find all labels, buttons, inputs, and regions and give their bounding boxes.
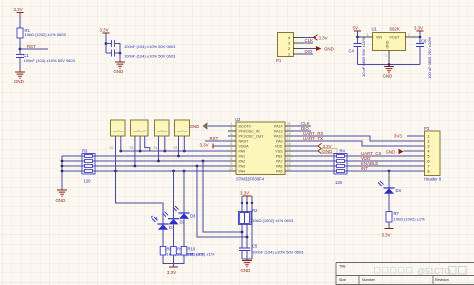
svg-text:S2: S2	[110, 146, 114, 150]
bottom join wire	[242, 259, 252, 260]
mcu right pin stubs	[285, 122, 293, 171]
SECTION: title block and watermark	[336, 263, 474, 285]
svg-text:PA0: PA0	[239, 150, 246, 154]
svg-text:D2: D2	[180, 220, 186, 225]
pin 4 wire	[293, 37, 316, 39]
key S5	[174, 120, 190, 150]
led D1	[151, 216, 175, 247]
resnet R3	[82, 149, 95, 184]
svg-text:17: 17	[287, 137, 291, 141]
SECTION: right resnet R4, header, D4	[293, 121, 442, 238]
svg-text:1: 1	[288, 53, 290, 57]
svg-text:—○—○: —○—○	[133, 128, 146, 133]
svg-text:PA2: PA2	[239, 160, 246, 164]
power 5V	[353, 26, 362, 38]
svg-text:STM32F030F4: STM32F030F4	[236, 177, 265, 182]
svg-text:CLK: CLK	[305, 38, 314, 43]
svg-text:9: 9	[231, 162, 233, 166]
svg-text:GND: GND	[386, 40, 390, 48]
net label UART_TX wire to header pin3	[293, 136, 425, 146]
led D2	[163, 212, 186, 247]
svg-text:7: 7	[428, 164, 430, 168]
svg-text:PA7: PA7	[276, 160, 283, 164]
wire	[19, 38, 21, 49]
svg-text:10kΩ (1002) ±1% 0603: 10kΩ (1002) ±1% 0603	[252, 218, 294, 223]
bottom wire	[358, 63, 421, 66]
resistor R10	[181, 247, 214, 257]
wire row PA2	[93, 160, 229, 162]
ground	[56, 190, 68, 203]
svg-text:D3: D3	[190, 214, 196, 219]
capacitor C2	[106, 40, 176, 49]
svg-text:PA14: PA14	[274, 125, 283, 129]
wire row INT	[345, 166, 426, 172]
svg-text:2: 2	[288, 47, 290, 51]
svg-text:4: 4	[231, 137, 233, 141]
svg-text:2: 2	[408, 33, 410, 37]
svg-text:1: 1	[385, 54, 387, 58]
mcu right pin names	[274, 125, 283, 174]
svg-text:20: 20	[287, 122, 291, 126]
svg-text:PA10: PA10	[274, 135, 283, 139]
svg-text:VDDA: VDDA	[239, 145, 250, 149]
svg-text:Number: Number	[362, 278, 376, 282]
svg-text:3.3V: 3.3V	[14, 7, 23, 12]
svg-text:1kΩ (102) ±1%: 1kΩ (102) ±1%	[188, 252, 215, 257]
ground	[114, 62, 126, 74]
svg-text:INT: INT	[361, 166, 368, 171]
wire to led D2	[172, 170, 175, 219]
svg-text:8: 8	[428, 169, 430, 173]
svg-text:C5: C5	[252, 244, 258, 249]
svg-text:Title: Title	[339, 265, 346, 269]
key S4 pin drops	[157, 136, 165, 162]
svg-text:6: 6	[231, 147, 233, 151]
header P3	[424, 126, 442, 182]
svg-text:GND: GND	[386, 149, 396, 154]
svg-text:S3: S3	[130, 146, 134, 150]
net label DIO	[293, 126, 311, 131]
pin 3 wire	[293, 42, 313, 44]
wire from PA2	[202, 160, 244, 234]
led D3	[173, 206, 196, 247]
svg-text:GND: GND	[190, 124, 200, 129]
svg-text:P3: P3	[424, 126, 430, 131]
node	[105, 42, 108, 45]
port GND on VSS	[293, 148, 337, 154]
capacitor pack C5	[239, 244, 304, 255]
svg-text:R3: R3	[82, 149, 88, 154]
svg-text:DIO: DIO	[305, 49, 313, 54]
port 3.3V on VDD	[293, 143, 332, 149]
svg-text:19: 19	[287, 127, 291, 131]
svg-text:BOOT0: BOOT0	[239, 125, 251, 129]
regulator U1 662K	[372, 27, 406, 51]
svg-text:R4: R4	[340, 149, 346, 154]
wire row VDD	[345, 156, 426, 161]
net label CLK	[293, 121, 311, 126]
svg-text:GND: GND	[323, 149, 333, 154]
svg-text:3.3V: 3.3V	[200, 142, 209, 147]
power 3.3V bottom	[167, 267, 178, 275]
ground	[241, 261, 253, 274]
SECTION: connector P1	[276, 33, 334, 64]
svg-text:16: 16	[287, 142, 291, 146]
svg-text:U2: U2	[235, 117, 241, 122]
svg-text:PA6: PA6	[276, 165, 283, 169]
svg-text:10kΩ (1002) ±1%: 10kΩ (1002) ±1%	[394, 217, 426, 222]
svg-text:Size: Size	[339, 278, 346, 282]
connector P1	[276, 33, 294, 64]
svg-text:100nF (104) ±10% 50V 0603: 100nF (104) ±10% 50V 0603	[252, 250, 304, 255]
wire row PA0	[119, 150, 228, 153]
svg-text:3: 3	[367, 33, 369, 37]
power 3.3V	[14, 7, 24, 28]
wire rails	[241, 196, 253, 259]
svg-text:3.3V: 3.3V	[382, 233, 391, 238]
svg-text:4: 4	[428, 149, 430, 153]
watermark	[375, 268, 413, 274]
wires MCU to R4	[293, 156, 337, 171]
svg-text:120: 120	[84, 179, 92, 184]
svg-text:PA9: PA9	[276, 140, 283, 144]
key S4	[154, 120, 170, 150]
mcu U2 STM32F030F4	[235, 117, 285, 182]
svg-text:@51CTO: @51CTO	[417, 267, 451, 276]
svg-text:D4: D4	[396, 188, 402, 193]
svg-text:—○—: —○—	[177, 128, 187, 133]
svg-text:120: 120	[335, 180, 343, 185]
svg-text:PA13: PA13	[274, 130, 283, 134]
svg-text:PA4: PA4	[239, 170, 246, 174]
ground	[14, 72, 25, 84]
svg-text:GND: GND	[114, 69, 124, 74]
capacitor C1	[16, 49, 76, 72]
svg-text:D1: D1	[169, 225, 175, 230]
svg-text:VOUT: VOUT	[390, 36, 401, 40]
svg-text:—○—: —○—	[157, 128, 167, 133]
resistor R8	[160, 247, 193, 257]
power 3.3V VDDA	[200, 142, 229, 148]
key S3	[130, 120, 149, 150]
net label RST	[205, 136, 228, 141]
svg-text:U1: U1	[372, 27, 378, 32]
pin 1 wire	[293, 53, 313, 55]
svg-text:10kΩ (1002) ±1% 0603: 10kΩ (1002) ±1% 0603	[25, 32, 67, 37]
svg-text:3.3V: 3.3V	[319, 35, 328, 40]
SECTION: regulator	[349, 26, 433, 80]
ground	[383, 67, 395, 79]
svg-text:662K: 662K	[390, 27, 400, 32]
key S2	[110, 120, 126, 150]
wire to led D3	[183, 170, 186, 213]
svg-text:C4: C4	[349, 49, 355, 54]
resistor R9	[171, 247, 204, 257]
SECTION: mcu	[190, 117, 294, 182]
svg-text:1: 1	[428, 134, 430, 138]
svg-text:2: 2	[231, 127, 233, 131]
svg-text:—○—: —○—	[113, 128, 123, 133]
svg-text:PA3: PA3	[239, 165, 246, 169]
svg-text:15: 15	[287, 147, 291, 151]
svg-text:10: 10	[229, 167, 233, 171]
port GND arrow	[316, 46, 334, 52]
svg-text:100nF (104) ±10% 50V 0603: 100nF (104) ±10% 50V 0603	[124, 44, 176, 49]
svg-text:NRST: NRST	[239, 140, 250, 144]
key S3 pin drops	[134, 136, 150, 167]
svg-text:14: 14	[287, 152, 291, 156]
svg-text:RST: RST	[27, 44, 36, 49]
svg-text:100 uF 0805 25V ±10%: 100 uF 0805 25V ±10%	[427, 37, 432, 79]
mcu left pin names	[239, 125, 265, 174]
svg-text:3V3: 3V3	[394, 134, 402, 139]
title block frame	[336, 263, 474, 285]
capacitor C4 input	[349, 37, 367, 77]
SECTION: top-left RC reset chain	[14, 7, 76, 84]
resnet R4	[334, 149, 347, 186]
svg-text:RST: RST	[210, 136, 219, 141]
power 3.3V bottom	[382, 229, 394, 238]
svg-text:12: 12	[287, 162, 291, 166]
pin 2	[405, 33, 421, 38]
svg-text:VIN: VIN	[376, 36, 382, 40]
wire to led D1	[116, 171, 164, 224]
svg-text:7: 7	[231, 152, 233, 156]
net label 3V3 to header pin1	[394, 134, 425, 139]
wire row UART_CS	[345, 151, 426, 156]
svg-text:3.3V: 3.3V	[167, 270, 176, 275]
svg-text:5V: 5V	[353, 26, 358, 31]
svg-text:11: 11	[287, 167, 291, 171]
port 3.3V	[314, 35, 328, 41]
wire row PA1	[93, 155, 229, 157]
SECTION: keys and resnet R3	[56, 120, 229, 203]
svg-text:3: 3	[231, 132, 233, 136]
svg-text:3.3V: 3.3V	[414, 26, 423, 31]
svg-text:GND: GND	[56, 198, 66, 203]
pin 1	[385, 50, 389, 65]
svg-text:3.3V: 3.3V	[100, 28, 109, 33]
pin 2 wire	[293, 48, 316, 50]
svg-text:18: 18	[287, 132, 291, 136]
svg-text:P1: P1	[276, 58, 282, 63]
svg-text:1: 1	[231, 122, 233, 126]
svg-text:GND: GND	[14, 79, 24, 84]
key S2 pin drops	[114, 136, 121, 172]
wire row PA3	[93, 165, 229, 167]
wire from PA3	[196, 165, 249, 239]
capacitor C3	[106, 50, 176, 59]
svg-text:3.3V: 3.3V	[240, 191, 249, 196]
svg-text:GND: GND	[383, 74, 393, 79]
port GND to BOOT0	[190, 122, 229, 129]
wire row PA4	[93, 170, 229, 172]
node RST	[19, 44, 48, 50]
svg-text:GND: GND	[324, 47, 334, 52]
SECTION: leds	[116, 170, 215, 275]
svg-text:VDD: VDD	[275, 145, 283, 149]
svg-text:13: 13	[287, 157, 291, 161]
svg-text:5: 5	[428, 154, 430, 158]
svg-text:3: 3	[288, 42, 290, 46]
svg-text:R7: R7	[394, 211, 400, 216]
svg-text:PB1: PB1	[276, 155, 283, 159]
wire to led D4	[388, 171, 390, 188]
resistor R7	[386, 211, 425, 229]
title block text	[339, 265, 449, 283]
svg-text:VSS: VSS	[275, 150, 283, 154]
svg-text:S5: S5	[174, 146, 178, 150]
svg-text:8: 8	[231, 157, 233, 161]
svg-text:UART_TX: UART_TX	[303, 136, 323, 141]
svg-text:PF1/OSC_OUT: PF1/OSC_OUT	[239, 135, 265, 139]
svg-text:2: 2	[428, 139, 430, 143]
svg-text:GND: GND	[241, 268, 251, 273]
wire common vertical	[61, 156, 64, 190]
common wire to power	[163, 255, 184, 267]
svg-text:PA1: PA1	[239, 155, 246, 159]
svg-text:PF0/OSC_IN: PF0/OSC_IN	[239, 130, 260, 134]
svg-text:PA5: PA5	[276, 170, 283, 174]
power 3.3V out	[414, 26, 424, 38]
capacitor C6 output	[416, 37, 432, 79]
wire row ENABLE	[345, 161, 426, 166]
net label UART_RX wire to header pin2	[293, 131, 425, 141]
pin 3	[356, 33, 373, 38]
resistor pack R2	[239, 208, 294, 225]
svg-text:3: 3	[428, 144, 430, 148]
svg-text:100nF (104) ±10% 50V 0603: 100nF (104) ±10% 50V 0603	[124, 54, 176, 59]
power 3.3V	[240, 191, 252, 197]
svg-text:10 uF 0805 50V ±10%: 10 uF 0805 50V ±10%	[361, 37, 366, 77]
svg-text:S4: S4	[154, 146, 158, 150]
led D4	[378, 181, 402, 212]
power 3.3V	[100, 28, 110, 54]
svg-text:Revision: Revision	[435, 278, 449, 282]
wires resnet left	[62, 156, 85, 171]
svg-text:Header 8: Header 8	[424, 177, 442, 182]
key S5 pin drops	[177, 136, 184, 157]
svg-text:R2: R2	[252, 208, 258, 213]
SECTION: pullups	[196, 160, 305, 273]
wire	[119, 49, 121, 62]
mcu left pin stubs	[228, 122, 236, 171]
svg-text:4: 4	[288, 36, 290, 40]
resistor R1	[17, 28, 66, 38]
port GND to header pin4	[386, 149, 426, 155]
SECTION: decoupling caps pair	[100, 28, 177, 75]
svg-text:100nF (104) ±10% 50V 0603: 100nF (104) ±10% 50V 0603	[24, 58, 76, 63]
svg-text:5: 5	[231, 142, 233, 146]
svg-text:6: 6	[428, 159, 430, 163]
